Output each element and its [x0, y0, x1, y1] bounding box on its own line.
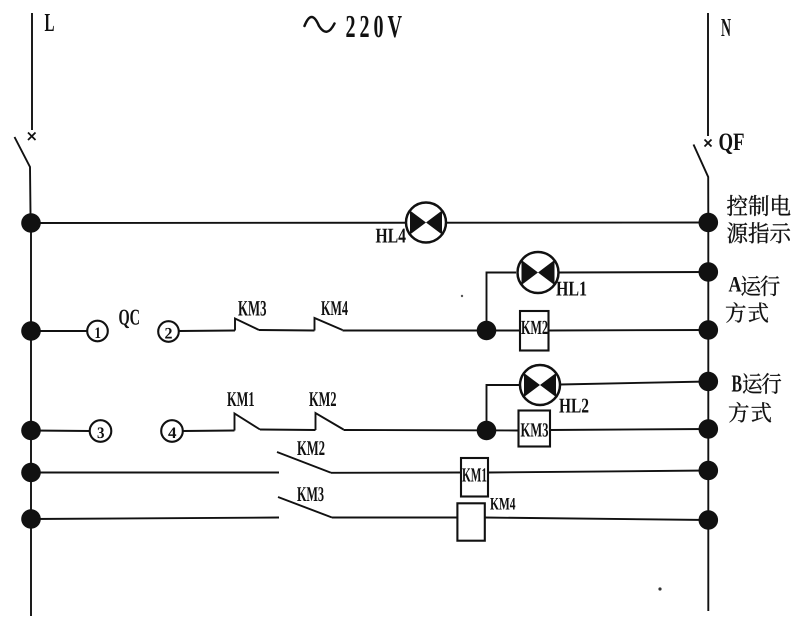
wire: KM4 to coil KM2: [343, 330, 521, 332]
junction dot: right bus / rung B: [699, 419, 719, 439]
label KM1: [227, 392, 254, 406]
connector pin 4: [161, 420, 183, 442]
annotation: fang shi (B): [729, 402, 771, 422]
wire: left bus to plug 3: [31, 430, 90, 433]
wire: left bus to KM2 contact: [31, 472, 279, 474]
node N: [721, 19, 731, 36]
lamp HL1: [518, 252, 559, 293]
wire: left bus to KM3 contact: [31, 518, 279, 520]
value label 220V: [346, 16, 401, 38]
contact KM4 (NO): [315, 318, 343, 331]
wire: KM2 contact to coil KM1: [331, 472, 461, 474]
label KM4 (coil): [490, 498, 515, 510]
junction dot: left bus / rung A: [21, 321, 41, 341]
coil KM1: [461, 458, 488, 497]
junction dot: left bus / rung B: [21, 421, 41, 441]
junction dot: rung B / HL2 branch: [477, 421, 497, 441]
wire: right bus: [707, 222, 709, 611]
junction dot: left bus / rung1: [21, 213, 41, 233]
wire: KM3 contact to coil KM4: [332, 517, 457, 519]
junction dot: right bus / rung KM1: [699, 461, 719, 481]
wire: rung 1 (pilot lamp HL4): [31, 222, 708, 225]
junction dot: rung A / HL1 branch: [477, 321, 497, 341]
annotation: fang shi (A): [726, 302, 768, 322]
label KM2 (rung KM1): [297, 441, 324, 455]
contact KM3 (NO): [235, 319, 259, 331]
connector label QC: [119, 310, 139, 329]
wire: left bus: [30, 223, 32, 616]
junction dot: right bus / HL2: [699, 372, 719, 392]
contact KM1 (NO): [235, 414, 261, 431]
wire: left bus to plug 1: [31, 330, 87, 332]
wire: HL1 branch to N: [557, 271, 708, 274]
coil KM2: [520, 311, 549, 351]
junction dot: left bus / rung KM4: [21, 509, 41, 529]
connector pin 3: [90, 420, 112, 442]
wire: N lead-in: [707, 13, 709, 136]
lamp HL2: [520, 365, 560, 405]
label HL1: [556, 282, 586, 296]
contact KM2 (NO): [316, 413, 344, 430]
wire: HL2 branch to N: [560, 382, 708, 385]
wire: pin 2 to KM3 contact: [179, 330, 235, 333]
wire: coil KM1 to N: [488, 471, 708, 473]
label KM3 (rung KM4): [297, 487, 323, 501]
annotation: B yun xing: [732, 373, 781, 394]
switch QC-L blade: [15, 137, 31, 223]
annotation: control power line 2 (yuan zhi shi): [727, 222, 790, 243]
label HL2: [559, 399, 588, 413]
speck artifact 2: [461, 295, 463, 297]
wire: pin 4 to KM1 contact: [183, 430, 235, 433]
connector pin 2: [158, 321, 179, 342]
annotation: A yun xing: [729, 276, 780, 297]
junction dot: right bus / rung1: [699, 213, 719, 233]
junction dot: right bus / HL1: [699, 262, 719, 282]
wire: L lead-in: [31, 13, 33, 130]
node L: [45, 14, 54, 31]
contact KM2 (NO, rung KM1): [277, 452, 331, 473]
switch QC-L cross mark: [28, 133, 36, 141]
speck artifact: [658, 587, 661, 590]
label HL4: [376, 229, 406, 243]
wire: HL2 branch vertical: [487, 385, 520, 431]
annotation: control power line 1 (kong zhi dian): [727, 195, 790, 216]
junction dot: right bus / rung A: [699, 320, 719, 340]
lamp HL4: [406, 203, 446, 243]
breaker QF cross mark: [705, 140, 712, 147]
breaker QF blade: [694, 145, 709, 223]
wire: coil KM4 to N: [485, 518, 708, 521]
label KM3: [238, 301, 266, 316]
label KM2: [309, 392, 336, 406]
contact KM3 (NO, rung KM4): [278, 497, 332, 518]
connector pin 1: [87, 321, 108, 342]
wire: KM2 to coil KM3: [344, 429, 519, 432]
junction dot: left bus / rung KM1: [21, 463, 41, 483]
wire: HL1 branch vertical: [487, 273, 517, 331]
wire: KM3 to KM4: [259, 329, 315, 332]
breaker label QF: [719, 133, 743, 154]
wire: KM1 to KM2: [260, 429, 316, 432]
coil KM3: [519, 411, 551, 447]
coil KM4: [457, 503, 484, 540]
wire: AC source symbol tilde: [305, 17, 335, 32]
junction dot: right bus / rung KM4: [699, 510, 719, 530]
wire: coil KM3 to N: [550, 429, 708, 430]
label KM4: [321, 301, 348, 315]
wire: coil KM2 to N: [549, 329, 708, 332]
